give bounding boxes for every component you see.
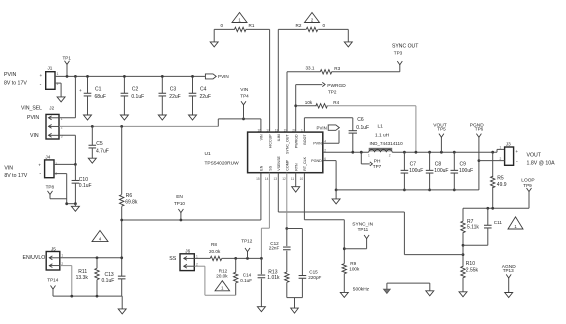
svg-text:R2: R2 bbox=[296, 23, 302, 28]
svg-text:EN: EN bbox=[176, 194, 183, 200]
svg-text:COMP: COMP bbox=[286, 159, 290, 170]
svg-text:C7: C7 bbox=[410, 162, 417, 168]
svg-text:500kHz: 500kHz bbox=[353, 286, 370, 292]
svg-text:PGND: PGND bbox=[311, 159, 322, 163]
svg-text:100k: 100k bbox=[349, 266, 360, 271]
svg-text:+: + bbox=[38, 164, 41, 169]
svg-text:-: - bbox=[40, 82, 42, 88]
svg-text:U1: U1 bbox=[205, 151, 211, 157]
svg-text:13: 13 bbox=[274, 177, 278, 181]
svg-text:1: 1 bbox=[196, 254, 198, 258]
svg-text:R10: R10 bbox=[466, 261, 475, 267]
svg-text:EN/UVLO: EN/UVLO bbox=[23, 255, 46, 261]
svg-text:R3: R3 bbox=[334, 66, 340, 71]
svg-text:1: 1 bbox=[368, 154, 370, 158]
svg-text:15: 15 bbox=[256, 177, 260, 181]
svg-text:C15: C15 bbox=[309, 270, 318, 275]
svg-text:1.01k: 1.01k bbox=[267, 275, 280, 281]
svg-text:TP5: TP5 bbox=[437, 127, 446, 132]
svg-text:C14: C14 bbox=[243, 272, 252, 277]
svg-text:J1: J1 bbox=[48, 65, 53, 70]
svg-text:R11: R11 bbox=[78, 269, 87, 275]
svg-text:RTN: RTN bbox=[294, 163, 298, 171]
svg-text:0.1uF: 0.1uF bbox=[240, 278, 252, 283]
svg-text:RT_CLK: RT_CLK bbox=[303, 156, 307, 170]
svg-text:R4: R4 bbox=[333, 100, 339, 105]
svg-text:EN: EN bbox=[260, 165, 264, 170]
svg-text:5.11k: 5.11k bbox=[467, 225, 479, 231]
svg-text:0.1uF: 0.1uF bbox=[79, 183, 92, 189]
svg-text:10: 10 bbox=[300, 177, 304, 181]
svg-text:TP14: TP14 bbox=[47, 277, 58, 282]
svg-text:69.8k: 69.8k bbox=[125, 199, 138, 205]
svg-text:22uF: 22uF bbox=[200, 94, 211, 100]
svg-text:TP12: TP12 bbox=[241, 239, 252, 244]
svg-text:PVIN: PVIN bbox=[218, 74, 229, 79]
svg-text:R1: R1 bbox=[249, 23, 255, 28]
svg-text:2.55k: 2.55k bbox=[466, 268, 479, 274]
svg-text:2: 2 bbox=[389, 154, 391, 158]
svg-text:PVIN: PVIN bbox=[4, 72, 17, 78]
svg-text:SYNC OUT: SYNC OUT bbox=[392, 44, 418, 50]
svg-text:SS: SS bbox=[268, 165, 272, 170]
svg-text:L1: L1 bbox=[378, 124, 384, 130]
svg-text:20.0k: 20.0k bbox=[216, 274, 228, 279]
svg-text:1: 1 bbox=[61, 254, 63, 258]
svg-text:-: - bbox=[516, 158, 518, 164]
svg-text:C9: C9 bbox=[460, 162, 467, 168]
svg-text:TP3: TP3 bbox=[394, 51, 403, 56]
svg-text:TP11: TP11 bbox=[358, 227, 369, 232]
svg-text:22nF: 22nF bbox=[269, 246, 280, 251]
svg-text:14: 14 bbox=[265, 177, 269, 181]
svg-text:13.3k: 13.3k bbox=[76, 275, 89, 281]
svg-text:-: - bbox=[39, 171, 41, 177]
svg-text:0: 0 bbox=[323, 23, 326, 28]
svg-text:IND_744314110: IND_744314110 bbox=[370, 141, 404, 146]
svg-text:8V to 17V: 8V to 17V bbox=[4, 173, 27, 179]
svg-text:TP4: TP4 bbox=[240, 93, 249, 98]
svg-text:J3: J3 bbox=[506, 141, 511, 146]
svg-text:+: + bbox=[515, 150, 518, 155]
svg-text:C3: C3 bbox=[170, 86, 177, 92]
svg-text:SS: SS bbox=[169, 256, 176, 262]
svg-text:1: 1 bbox=[57, 72, 59, 76]
svg-text:R8: R8 bbox=[211, 242, 217, 247]
svg-text:C2: C2 bbox=[132, 86, 139, 92]
svg-text:J6: J6 bbox=[185, 248, 190, 253]
svg-text:TP9: TP9 bbox=[523, 183, 532, 188]
svg-text:J5: J5 bbox=[51, 246, 56, 251]
svg-text:PVIN: PVIN bbox=[317, 126, 327, 131]
svg-text:16: 16 bbox=[258, 128, 262, 132]
svg-text:R9: R9 bbox=[350, 261, 356, 266]
svg-text:1: 1 bbox=[500, 146, 502, 150]
svg-text:68uF: 68uF bbox=[95, 94, 106, 100]
svg-text:100uF: 100uF bbox=[409, 168, 423, 174]
svg-text:220pF: 220pF bbox=[308, 275, 321, 280]
svg-text:VIN_SEL: VIN_SEL bbox=[21, 106, 42, 112]
svg-text:VSENSE: VSENSE bbox=[277, 156, 281, 171]
svg-text:33.1: 33.1 bbox=[306, 66, 315, 71]
svg-text:J2: J2 bbox=[49, 105, 54, 110]
svg-text:PWRGD: PWRGD bbox=[327, 83, 346, 89]
svg-text:+: + bbox=[79, 89, 82, 94]
svg-text:PWRGD: PWRGD bbox=[294, 134, 298, 148]
svg-text:8V to 17V: 8V to 17V bbox=[4, 80, 27, 86]
svg-text:VIN: VIN bbox=[260, 134, 264, 140]
svg-text:0: 0 bbox=[221, 23, 224, 28]
svg-text:49.9: 49.9 bbox=[497, 182, 507, 188]
svg-text:R12: R12 bbox=[219, 268, 228, 273]
svg-text:1.1 uH: 1.1 uH bbox=[375, 133, 390, 139]
svg-text:0.1uF: 0.1uF bbox=[102, 278, 115, 284]
svg-text:TP10: TP10 bbox=[174, 201, 185, 206]
svg-text:0.1uF: 0.1uF bbox=[356, 125, 369, 131]
svg-text:22uF: 22uF bbox=[169, 94, 180, 100]
svg-text:C1: C1 bbox=[95, 86, 102, 92]
svg-text:0.1uF: 0.1uF bbox=[131, 94, 144, 100]
svg-text:+: + bbox=[40, 74, 43, 79]
svg-text:TP8: TP8 bbox=[46, 184, 55, 189]
svg-text:R5: R5 bbox=[497, 176, 504, 182]
svg-text:VOUT: VOUT bbox=[527, 153, 542, 159]
svg-text:ILIM: ILIM bbox=[277, 134, 281, 141]
svg-text:VIN: VIN bbox=[4, 166, 13, 172]
svg-text:R6: R6 bbox=[126, 193, 133, 199]
svg-text:C8: C8 bbox=[435, 162, 442, 168]
svg-text:TP7: TP7 bbox=[373, 164, 382, 169]
svg-text:C6: C6 bbox=[357, 117, 364, 123]
svg-text:BOOT: BOOT bbox=[303, 134, 307, 145]
svg-text:10k: 10k bbox=[305, 100, 313, 105]
svg-text:100uF: 100uF bbox=[459, 168, 473, 174]
svg-text:12: 12 bbox=[282, 177, 286, 181]
svg-text:J4: J4 bbox=[45, 154, 50, 159]
svg-text:TP2: TP2 bbox=[328, 90, 337, 95]
svg-text:4.7uF: 4.7uF bbox=[96, 149, 109, 155]
svg-text:TP1: TP1 bbox=[63, 55, 72, 60]
svg-text:PVIN: PVIN bbox=[313, 142, 322, 146]
svg-text:100uF: 100uF bbox=[434, 168, 448, 174]
svg-text:SYNC_OUT: SYNC_OUT bbox=[286, 134, 290, 154]
svg-text:1.8V @ 10A: 1.8V @ 10A bbox=[527, 161, 556, 167]
svg-text:2: 2 bbox=[500, 157, 502, 161]
svg-text:11: 11 bbox=[291, 177, 295, 181]
svg-text:C5: C5 bbox=[96, 141, 103, 147]
svg-text:HICCUP: HICCUP bbox=[268, 134, 272, 148]
svg-text:TP6: TP6 bbox=[475, 127, 484, 132]
svg-text:TP13: TP13 bbox=[503, 268, 514, 273]
svg-text:TPS54020RUW: TPS54020RUW bbox=[205, 161, 240, 167]
svg-text:C11: C11 bbox=[494, 220, 503, 225]
svg-text:1: 1 bbox=[301, 128, 303, 132]
svg-text:PVIN: PVIN bbox=[27, 115, 39, 121]
svg-text:VIN: VIN bbox=[30, 133, 39, 139]
svg-text:VIN: VIN bbox=[240, 87, 249, 93]
svg-text:20.0k: 20.0k bbox=[209, 249, 221, 254]
svg-text:C4: C4 bbox=[200, 86, 207, 92]
